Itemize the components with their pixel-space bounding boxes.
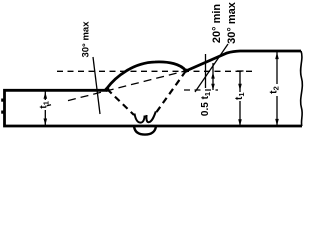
svg-text:30° max: 30° max bbox=[81, 21, 92, 58]
svg-text:t1: t1 bbox=[234, 92, 246, 100]
svg-text:30° max: 30° max bbox=[226, 1, 238, 44]
svg-text:t2: t2 bbox=[267, 86, 280, 94]
svg-text:0.5 t1: 0.5 t1 bbox=[200, 92, 212, 116]
svg-text:t1: t1 bbox=[39, 101, 51, 109]
svg-text:20° min: 20° min bbox=[211, 4, 223, 44]
